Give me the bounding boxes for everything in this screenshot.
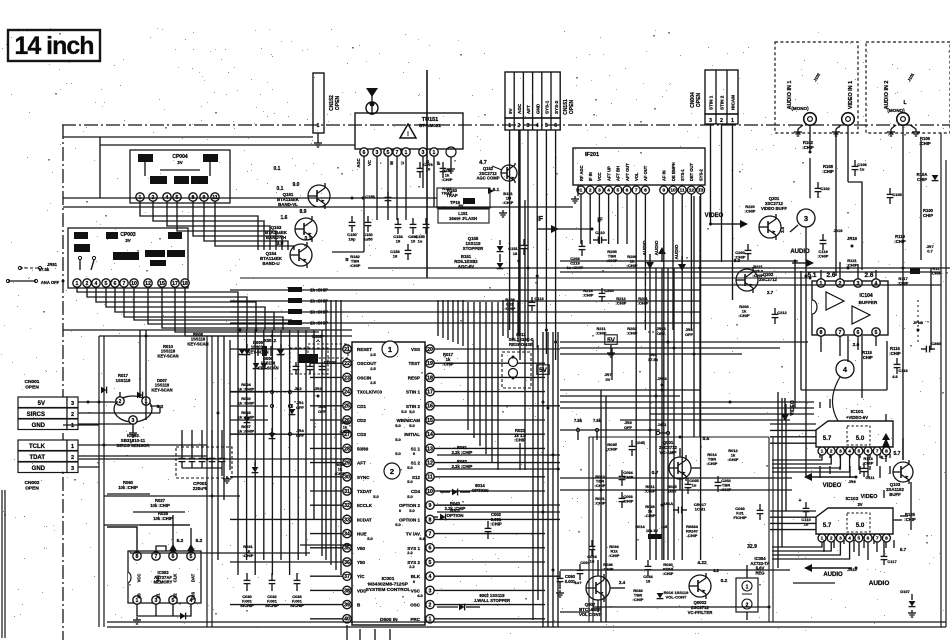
diode D013 bbox=[278, 349, 285, 354]
svg-text:2.7: 2.7 bbox=[767, 290, 774, 295]
svg-text:28: 28 bbox=[344, 446, 350, 452]
wire CP005 fan 5 bbox=[124, 288, 283, 331]
diode D012 bbox=[261, 363, 268, 368]
connector CP004 bbox=[130, 150, 230, 203]
svg-text::CHIP: :CHIP bbox=[603, 567, 614, 572]
wire CP005 fan 4 bbox=[115, 288, 274, 331]
svg-text:50/60: 50/60 bbox=[357, 446, 369, 451]
wire CN151 pin3 drop bbox=[527, 130, 529, 342]
svg-text:4: 4 bbox=[875, 281, 878, 287]
wire CN004 nicam drop bbox=[732, 124, 734, 300]
resistor R007 bbox=[230, 433, 268, 435]
wire q007 wires bbox=[597, 560, 599, 576]
IC001 left pin 31 TXDAT bbox=[343, 487, 351, 495]
svg-text:3: 3 bbox=[839, 449, 842, 455]
wire audio bus v2 bbox=[661, 268, 663, 560]
wire ic001 left bus v1 bbox=[330, 300, 332, 565]
svg-text:1u: 1u bbox=[860, 167, 865, 172]
CP004 pin 2 bbox=[149, 193, 157, 201]
svg-text:VOL: VOL bbox=[634, 172, 639, 181]
wire option bus t8 bbox=[512, 300, 514, 340]
wire IF201 pin5 drop bbox=[617, 195, 619, 245]
svg-text:AUDIO: AUDIO bbox=[790, 249, 810, 255]
svg-text:IF: IF bbox=[537, 216, 544, 223]
diode D014 bbox=[244, 417, 251, 422]
capacitor C155 bbox=[425, 218, 427, 224]
wire option bus t6 bbox=[502, 300, 504, 336]
IC001 left pin 35 V50 bbox=[343, 544, 351, 552]
wire CN004 stin1 drop bbox=[710, 124, 712, 224]
svg-text:22: 22 bbox=[344, 361, 350, 367]
svg-text:BUFFER: BUFFER bbox=[859, 300, 878, 305]
svg-text:2.5: 2.5 bbox=[370, 380, 376, 385]
sub block IF trap bbox=[437, 188, 490, 208]
svg-text:10: 10 bbox=[411, 239, 416, 244]
svg-text::CHIP: :CHIP bbox=[904, 517, 916, 522]
svg-text::CHIP: :CHIP bbox=[707, 461, 718, 466]
wire CP005 fan 8 bbox=[162, 288, 310, 329]
IC001 left pin 23 OSCIN bbox=[343, 373, 351, 381]
svg-text:18: 18 bbox=[513, 251, 518, 256]
wire IC101 bottom fan bbox=[772, 455, 822, 460]
svg-text:1u: 1u bbox=[692, 483, 697, 488]
svg-text:D107: D107 bbox=[900, 589, 910, 594]
wire v862 bbox=[861, 336, 863, 398]
IC U IC001 body bbox=[352, 342, 425, 625]
svg-text:IF IN: IF IN bbox=[588, 172, 593, 181]
wire ic101 top stubs bbox=[819, 402, 821, 408]
IC001 right pin 13 S1 1 bbox=[426, 444, 434, 452]
wire IC003 nc loop bbox=[156, 546, 166, 551]
svg-text:OSC: OSC bbox=[410, 603, 421, 608]
title box 14 inch bbox=[8, 30, 100, 61]
wire option bus t3 bbox=[452, 300, 454, 342]
capacitor C218 bbox=[581, 240, 583, 246]
svg-text:AUDIO: AUDIO bbox=[642, 240, 647, 255]
capacitor C050 bbox=[559, 571, 561, 578]
svg-text:AFT UP: AFT UP bbox=[606, 166, 611, 181]
svg-text:4.6: 4.6 bbox=[892, 374, 898, 379]
svg-text:5.0: 5.0 bbox=[401, 409, 407, 414]
IC001 right pin 14 INITIAL bbox=[426, 430, 434, 438]
svg-text:25: 25 bbox=[344, 404, 350, 410]
svg-text:CN001: CN001 bbox=[25, 379, 40, 385]
wire IF201 pin2 drop bbox=[589, 195, 591, 245]
wire option bus v5 bbox=[497, 302, 499, 470]
svg-text:1: 1 bbox=[388, 345, 392, 354]
svg-text:TCLK: TCLK bbox=[29, 444, 46, 450]
svg-text:5: 5 bbox=[545, 123, 548, 129]
chassis boundary dash-dot horizontal bbox=[62, 124, 950, 126]
svg-text::CHIP: :CHIP bbox=[818, 254, 829, 259]
svg-text:2: 2 bbox=[429, 602, 432, 608]
IC001 left pin 24 TXCLK/VC0 bbox=[343, 387, 351, 395]
IC IC003 memory bbox=[128, 551, 201, 603]
wire cp001 drops bbox=[181, 430, 183, 452]
svg-text::CHIP: :CHIP bbox=[638, 301, 649, 306]
svg-text::CHIP: :CHIP bbox=[490, 522, 502, 527]
svg-text:1u: 1u bbox=[804, 522, 809, 527]
svg-text:JR19: JR19 bbox=[847, 236, 858, 241]
wire bus h413 cn bbox=[78, 412, 160, 414]
svg-text:10k :CHIP: 10k :CHIP bbox=[150, 503, 170, 508]
input box AUDIO IN 2 bbox=[866, 42, 950, 133]
wire ic104 top stubs bbox=[820, 270, 822, 279]
wire h505 bbox=[437, 504, 560, 506]
svg-text:TDAT: TDAT bbox=[29, 455, 45, 461]
svg-text:KEY-SCAN: KEY-SCAN bbox=[157, 353, 178, 358]
diode D011 bbox=[244, 349, 251, 354]
wire bottom border bbox=[107, 621, 946, 623]
resistor R003 bbox=[230, 419, 268, 421]
svg-text:OFF: OFF bbox=[685, 332, 694, 337]
IC001 left pin 30 SYNC bbox=[343, 473, 351, 481]
wire IC001 left stubs bbox=[230, 348, 343, 350]
svg-text:IC104: IC104 bbox=[859, 293, 873, 299]
svg-text:S!CHIP: S!CHIP bbox=[240, 603, 254, 608]
svg-text:0.1: 0.1 bbox=[274, 166, 281, 172]
wire bus h420 bbox=[620, 419, 790, 421]
svg-text:14 inch: 14 inch bbox=[14, 32, 93, 60]
capacitor C116 bbox=[896, 358, 898, 364]
capacitor C202 bbox=[717, 476, 719, 482]
IC001 right pin 4 BLK bbox=[426, 572, 434, 580]
capacitor C105 bbox=[889, 188, 891, 194]
capacitor C368 bbox=[921, 348, 926, 350]
svg-text::CHIP: :CHIP bbox=[607, 447, 618, 452]
svg-text:7: 7 bbox=[155, 554, 158, 560]
diode D107 bbox=[909, 601, 916, 606]
svg-text:5.0: 5.0 bbox=[367, 536, 373, 541]
wire tuner drop x406 bbox=[405, 157, 407, 221]
svg-text:8.9: 8.9 bbox=[300, 209, 307, 215]
connector CN004 bbox=[705, 70, 738, 114]
wire left border a bbox=[1, 490, 3, 638]
capacitor C210 bbox=[593, 239, 598, 241]
capacitor C044 bbox=[647, 560, 649, 566]
IC001 left pin 21 RESET bbox=[343, 345, 351, 353]
svg-text:2: 2 bbox=[517, 123, 520, 129]
svg-text::CHIP: :CHIP bbox=[350, 263, 361, 268]
resistor R022 bbox=[288, 320, 302, 325]
IC001 right pin 7 TV /AV bbox=[426, 529, 434, 537]
svg-text::CHIP: :CHIP bbox=[633, 597, 644, 602]
svg-text::CHIP: :CHIP bbox=[739, 313, 750, 318]
svg-text:5.0: 5.0 bbox=[395, 423, 401, 428]
capacitor C150 bbox=[351, 216, 353, 222]
svg-text::CHIP: :CHIP bbox=[623, 499, 634, 504]
wire IF201 pin6 drop bbox=[626, 195, 628, 245]
wire keypad column v5 bbox=[280, 330, 282, 560]
diode D151 bbox=[497, 246, 504, 251]
CP004 pin 8 bbox=[189, 193, 197, 201]
svg-text:3: 3 bbox=[804, 214, 808, 223]
wire IC003 dat bbox=[190, 528, 192, 551]
svg-text:2.4: 2.4 bbox=[619, 580, 626, 585]
svg-text:6: 6 bbox=[626, 188, 629, 194]
svg-text:OPEN: OPEN bbox=[25, 485, 39, 491]
wire IC102 pin drops bbox=[858, 542, 860, 556]
capacitor C032 bbox=[271, 573, 273, 580]
svg-text:11: 11 bbox=[427, 475, 433, 481]
svg-text:6: 6 bbox=[429, 546, 432, 552]
svg-text:DAT: DAT bbox=[191, 573, 196, 582]
wire ic001 bottom drops bbox=[346, 625, 348, 640]
wire CP005 fan 10 bbox=[185, 288, 328, 337]
svg-text:BAND-VL: BAND-VL bbox=[278, 202, 298, 207]
IC001 right pin 10 CD4 bbox=[426, 487, 434, 495]
svg-text:Y/C: Y/C bbox=[357, 574, 365, 579]
wire CP004 pin drop 5 bbox=[204, 202, 288, 251]
svg-text:3: 3 bbox=[132, 418, 135, 424]
wire keypad column v1 bbox=[246, 330, 248, 560]
diode D017 bbox=[252, 467, 259, 472]
svg-text::CHIP: :CHIP bbox=[595, 483, 606, 488]
CP004 pin 5 bbox=[173, 193, 181, 201]
CP004 pin 4 bbox=[163, 193, 171, 201]
svg-text:1: 1 bbox=[76, 281, 79, 287]
svg-text:3: 3 bbox=[857, 281, 860, 287]
svg-text:24: 24 bbox=[344, 389, 350, 395]
svg-text:C117: C117 bbox=[887, 559, 897, 564]
wire section border v2 bbox=[103, 336, 105, 627]
svg-text:OPTION 1: OPTION 1 bbox=[399, 517, 421, 522]
wire keypad column v4 bbox=[271, 330, 273, 575]
CP005 pin 15 bbox=[158, 279, 166, 287]
svg-text:IF201: IF201 bbox=[585, 152, 599, 158]
wire section border v1 bbox=[98, 336, 100, 627]
wire tuner vb drop bbox=[422, 157, 424, 189]
svg-text:23: 23 bbox=[344, 375, 350, 381]
svg-text:2: 2 bbox=[839, 281, 842, 287]
svg-text::CHIP: :CHIP bbox=[616, 301, 627, 306]
wire left v140 bbox=[139, 330, 141, 398]
svg-text:8: 8 bbox=[885, 449, 888, 455]
svg-text:RF AGC: RF AGC bbox=[579, 165, 584, 181]
svg-text:1: 1 bbox=[821, 536, 824, 542]
CP004 pin 1 bbox=[136, 193, 144, 201]
wire v848b bbox=[847, 336, 849, 362]
svg-text:5.7: 5.7 bbox=[881, 455, 888, 461]
svg-text:2: 2 bbox=[830, 449, 833, 455]
svg-text:5.2: 5.2 bbox=[196, 538, 203, 544]
svg-text:2.5: 2.5 bbox=[370, 352, 376, 357]
svg-text:18: 18 bbox=[393, 254, 398, 259]
wire q103 up bbox=[885, 439, 887, 441]
wire audio h570 bbox=[560, 569, 790, 571]
capacitor block CP001 bbox=[176, 447, 232, 478]
svg-text:M: M bbox=[389, 161, 394, 165]
svg-text:SYS-2: SYS-2 bbox=[698, 168, 703, 181]
svg-text:STOPPER: STOPPER bbox=[463, 246, 484, 251]
wire ic101 pin drops bbox=[819, 466, 821, 478]
svg-text:8: 8 bbox=[820, 330, 823, 336]
transistor Q154 bbox=[290, 244, 312, 266]
svg-text:0.1: 0.1 bbox=[305, 236, 312, 242]
svg-text:36: 36 bbox=[344, 560, 350, 566]
svg-text:5V: 5V bbox=[607, 337, 616, 344]
wire video border h bbox=[805, 455, 807, 478]
wire audio2 drop bbox=[902, 125, 904, 260]
wire bus h330 bbox=[63, 329, 352, 331]
wire bus h459 bbox=[78, 458, 352, 460]
capacitor C003 bbox=[621, 492, 623, 498]
capacitor C200 bbox=[747, 244, 749, 250]
capacitor C004 bbox=[621, 470, 623, 476]
svg-text:5.0: 5.0 bbox=[409, 423, 415, 428]
wire IC102 bottom fan bbox=[772, 542, 822, 547]
IC IC102 bbox=[816, 508, 893, 534]
svg-text:19: 19 bbox=[427, 361, 433, 367]
wire bus h424 cn bbox=[78, 423, 133, 425]
CP005 pin 12 bbox=[144, 279, 152, 287]
diode D152 bbox=[497, 263, 504, 268]
wire IC001 right stubs bbox=[434, 348, 560, 350]
wire CN151 pin6 drop bbox=[555, 130, 557, 360]
svg-text:AGC: AGC bbox=[517, 103, 522, 114]
IC IC002 SIRCS sensor bbox=[114, 396, 152, 422]
IC IF201 bbox=[573, 148, 705, 185]
svg-text:10k :CHIP: 10k :CHIP bbox=[153, 516, 173, 521]
transistor Q152 bbox=[501, 165, 517, 181]
transistor Q202 bbox=[736, 269, 758, 291]
svg-text:2: 2 bbox=[71, 412, 74, 418]
wire bus h354 bbox=[560, 353, 742, 355]
IC001 left pin 29 AFT bbox=[343, 458, 351, 466]
wire option bus v2 bbox=[479, 302, 481, 446]
svg-text:GND: GND bbox=[32, 423, 46, 429]
svg-text:OPEN: OPEN bbox=[335, 96, 341, 111]
svg-text:7: 7 bbox=[396, 150, 399, 156]
capacitor C861 bbox=[412, 218, 414, 224]
svg-text:8: 8 bbox=[885, 536, 888, 542]
svg-text:4: 4 bbox=[848, 536, 851, 542]
svg-text:A0: A0 bbox=[137, 593, 142, 599]
wire IF201 pin13 drop bbox=[700, 195, 702, 561]
wire bus h198 bbox=[63, 197, 437, 199]
wire keypad column v0 bbox=[237, 330, 239, 575]
svg-text:A2: A2 bbox=[173, 593, 178, 599]
svg-text:GND: GND bbox=[32, 466, 46, 472]
transistor Q103 bbox=[893, 462, 913, 482]
wire CN151 pin4 drop bbox=[536, 130, 538, 348]
svg-text:OPTION: OPTION bbox=[447, 513, 464, 518]
svg-text:10: 10 bbox=[670, 188, 676, 194]
svg-text:220u*5: 220u*5 bbox=[193, 486, 208, 491]
IC001 right pin 11 S12 bbox=[426, 473, 434, 481]
wire option bus t4 bbox=[457, 300, 459, 344]
wire bus v extra bbox=[519, 130, 521, 360]
svg-text:Y50: Y50 bbox=[357, 560, 366, 565]
wire audio bus v1 bbox=[655, 268, 657, 560]
antenna input bbox=[371, 92, 373, 115]
svg-text:NICAM: NICAM bbox=[731, 95, 736, 110]
diode 8003 OPTION bbox=[440, 514, 445, 521]
svg-text::CHIP: :CHIP bbox=[503, 200, 514, 205]
svg-text:CD1: CD1 bbox=[357, 404, 366, 409]
wire main bus v1 bbox=[547, 332, 549, 627]
node 4 callout bbox=[836, 360, 854, 378]
wire bus h390 bbox=[560, 389, 700, 391]
svg-text:OPEN: OPEN bbox=[696, 93, 702, 108]
wire ic001 left bus v3 bbox=[340, 300, 342, 575]
wire bundle bl bbox=[217, 336, 219, 560]
svg-text:BAND-U: BAND-U bbox=[262, 261, 279, 266]
wire tuner drop x388 bbox=[387, 157, 389, 221]
svg-text:PRC: PRC bbox=[410, 617, 420, 622]
svg-text::CHIP: :CHIP bbox=[442, 362, 454, 367]
svg-text:5.7: 5.7 bbox=[823, 522, 832, 529]
wire IC003 vcc bbox=[107, 527, 137, 551]
svg-text:5: 5 bbox=[857, 449, 860, 455]
svg-text:5: 5 bbox=[105, 281, 108, 287]
svg-text:AGC: AGC bbox=[356, 158, 361, 167]
wire main bus v2 bbox=[552, 332, 554, 627]
CP004 pin 9 bbox=[200, 193, 208, 201]
svg-text:20: 20 bbox=[427, 347, 433, 353]
svg-text:SYSTEM CONTROL: SYSTEM CONTROL bbox=[366, 587, 411, 593]
resistor R061 bbox=[437, 454, 560, 456]
svg-text:SIRCS: SIRCS bbox=[27, 412, 45, 418]
wire CP004 pin drop 0 bbox=[140, 202, 258, 251]
svg-text:7.5k: 7.5k bbox=[574, 418, 583, 423]
wire section border v4 bbox=[211, 336, 213, 627]
svg-text::CHIP: :CHIP bbox=[802, 145, 814, 150]
wire option bus t2 bbox=[447, 300, 449, 340]
IC001 left pin 26 CD2 bbox=[343, 416, 351, 424]
svg-text:5.1: 5.1 bbox=[493, 187, 500, 193]
IC001 left pin 39 B bbox=[343, 600, 351, 608]
capacitor C111 bbox=[863, 463, 865, 468]
svg-text:1: 1 bbox=[508, 123, 511, 129]
resistor R019 bbox=[288, 287, 302, 292]
svg-text:AF IN: AF IN bbox=[662, 170, 667, 181]
capacitor C212 bbox=[774, 308, 776, 314]
svg-text:15: 15 bbox=[427, 418, 433, 424]
svg-text:KEY-SCAN: KEY-SCAN bbox=[187, 341, 208, 346]
svg-text:5.0: 5.0 bbox=[407, 494, 413, 499]
wire tuner drop x397 bbox=[396, 157, 398, 221]
IC001 left pin 27 CD3 bbox=[343, 430, 351, 438]
wire audio bus v5 bbox=[693, 196, 695, 437]
wire v806 node3 bbox=[805, 227, 807, 455]
connector CN152 bbox=[313, 73, 324, 133]
wire bus h496 bbox=[104, 495, 240, 497]
svg-text:V50: V50 bbox=[357, 546, 366, 551]
svg-text:16: 16 bbox=[427, 404, 433, 410]
svg-text:VIDEO: VIDEO bbox=[823, 483, 842, 489]
svg-text:35: 35 bbox=[344, 546, 350, 552]
svg-text:7: 7 bbox=[876, 536, 879, 542]
wire ic102 top bbox=[883, 490, 885, 498]
svg-text:0.2: 0.2 bbox=[721, 578, 728, 584]
svg-text:IF: IF bbox=[597, 218, 603, 224]
svg-text:AFT: AFT bbox=[357, 461, 366, 466]
svg-text:CD2: CD2 bbox=[357, 418, 366, 423]
wire q001 wires bbox=[679, 448, 681, 457]
connector CN002 bbox=[18, 440, 67, 451]
svg-text:C360: C360 bbox=[931, 341, 941, 346]
svg-text:VIDEO BUFF: VIDEO BUFF bbox=[761, 206, 787, 211]
wire audio block border bbox=[800, 271, 802, 390]
svg-text:U: U bbox=[400, 161, 405, 164]
filter CF001 bbox=[290, 348, 328, 374]
capacitor C153c bbox=[407, 244, 409, 250]
svg-text:6: 6 bbox=[554, 123, 557, 129]
CP005 pin 17 bbox=[171, 279, 179, 287]
wire h490 video bbox=[560, 489, 792, 491]
svg-text:5: 5 bbox=[875, 330, 878, 336]
